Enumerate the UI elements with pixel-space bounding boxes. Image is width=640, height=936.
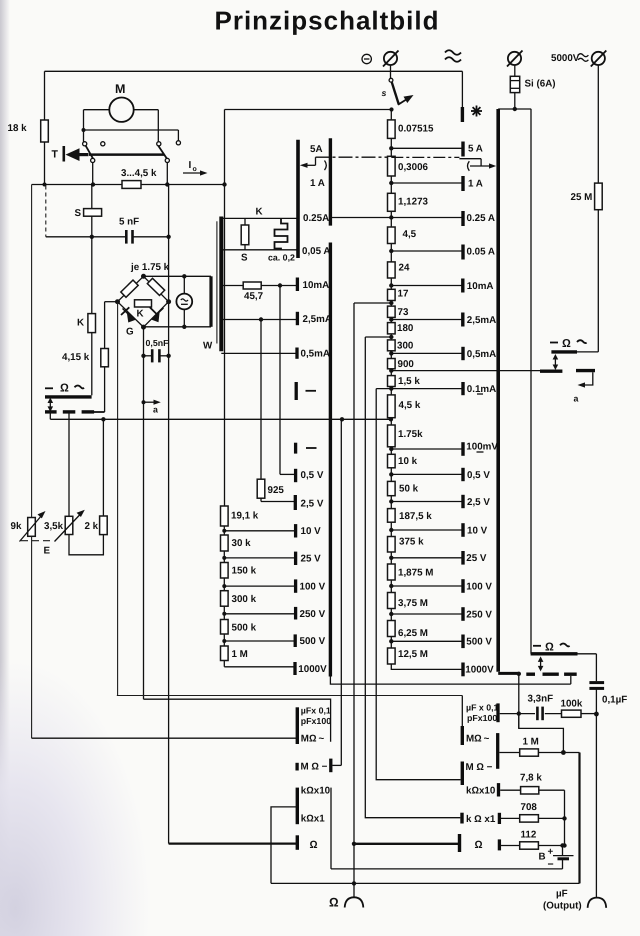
resistor 180 xyxy=(388,323,414,335)
wire jack A to fuse xyxy=(514,65,516,76)
svg-text:10mA: 10mA xyxy=(467,281,494,292)
svg-text:0.05 A: 0.05 A xyxy=(467,246,496,257)
svg-text:B: B xyxy=(539,852,546,863)
svg-text:M Ω −: M Ω − xyxy=(301,762,328,773)
terminal symbol DC (minus in circle) xyxy=(362,54,371,63)
resistor 4,5k xyxy=(388,395,421,418)
svg-text:K: K xyxy=(137,309,144,320)
right block MOhm~/- right bar xyxy=(496,733,499,769)
svg-text:k Ω x1: k Ω x1 xyxy=(466,814,496,825)
star symbol xyxy=(471,106,482,117)
label Io with arrow xyxy=(183,160,208,176)
svg-text:100 V: 100 V xyxy=(466,581,492,592)
svg-text:3...4,5 k: 3...4,5 k xyxy=(121,168,157,179)
wire meter loop bottom xyxy=(144,325,212,329)
left bank contact bars column xyxy=(295,278,297,676)
wire right leg of top bus xyxy=(461,71,463,108)
wiper pair symbol right bank xyxy=(391,157,496,170)
svg-text:kΩx1: kΩx1 xyxy=(301,814,325,825)
svg-text:4,5: 4,5 xyxy=(403,229,417,240)
svg-text:W: W xyxy=(203,341,213,352)
resistor 1,1273 xyxy=(388,193,429,211)
wire MOhm~ feed from left xyxy=(32,737,297,739)
svg-text:3,3nF: 3,3nF xyxy=(528,694,554,705)
left bank right bar (tap bar column) xyxy=(329,138,332,676)
svg-text:30 k: 30 k xyxy=(232,538,252,549)
selector Ohm~ 2 wiper xyxy=(538,656,544,671)
right block Ohm row xyxy=(460,834,500,852)
svg-text:24: 24 xyxy=(399,262,410,273)
wire 5000V jack to 25M xyxy=(597,65,599,183)
node 1A xyxy=(389,181,463,185)
svg-text:9k: 9k xyxy=(11,521,22,532)
svg-text:5 nF: 5 nF xyxy=(119,217,139,228)
node 500V xyxy=(389,639,463,643)
wire top bus y71 xyxy=(45,70,463,72)
svg-text:112: 112 xyxy=(521,830,537,841)
wire contact top rail xyxy=(84,130,179,141)
svg-text:0,5 V: 0,5 V xyxy=(467,470,490,481)
svg-text:0.25 A: 0.25 A xyxy=(467,213,496,224)
wire winding tap K top xyxy=(223,217,298,219)
jack terminal 5000V xyxy=(551,51,606,67)
wire bridge bottom leg down xyxy=(143,356,145,699)
svg-text:4,5 k: 4,5 k xyxy=(399,400,421,411)
svg-text:100mV: 100mV xyxy=(466,442,498,453)
resistor 500k xyxy=(221,612,257,634)
wire 1M loop up xyxy=(519,714,564,753)
underline marks xyxy=(477,394,484,452)
svg-text:10 V: 10 V xyxy=(301,526,322,537)
resistor 50k xyxy=(388,481,419,495)
svg-text:1 M: 1 M xyxy=(232,649,248,660)
right block kOhmx1 row xyxy=(462,813,499,825)
svg-text:5000V: 5000V xyxy=(551,53,580,64)
wire 18k to bus xyxy=(43,142,47,187)
bridge rectifier je 1.75k xyxy=(115,262,171,330)
svg-text:19,1 k: 19,1 k xyxy=(231,511,259,522)
svg-text:S: S xyxy=(75,208,82,219)
svg-text:500 V: 500 V xyxy=(300,636,326,647)
svg-text:ca. 0,2: ca. 0,2 xyxy=(268,253,295,263)
svg-text:E: E xyxy=(44,546,51,557)
svg-text:2,5 V: 2,5 V xyxy=(467,497,490,508)
node 10V xyxy=(389,528,463,532)
svg-text:s: s xyxy=(382,88,387,98)
svg-text:300: 300 xyxy=(397,340,414,351)
svg-text:a: a xyxy=(574,394,579,404)
wire heavy to bottom bus xyxy=(578,753,580,884)
svg-text:25 V: 25 V xyxy=(466,553,487,564)
svg-text:Ω: Ω xyxy=(329,896,339,910)
bridge resistor K (middle) xyxy=(135,300,152,320)
svg-text:25 M: 25 M xyxy=(571,192,593,203)
svg-text:µFx 0,1: µFx 0,1 xyxy=(301,706,331,716)
svg-text:1 A: 1 A xyxy=(468,178,483,189)
wire bridge left to 4.15k corner xyxy=(105,301,118,303)
wire switch lower to chain top xyxy=(225,107,394,111)
svg-text:0.07515: 0.07515 xyxy=(398,124,434,135)
wire kOhm feed xyxy=(271,807,297,884)
motor M xyxy=(109,82,133,122)
switch s xyxy=(382,78,414,105)
svg-text:2,5mA: 2,5mA xyxy=(467,315,496,326)
resistor 1M xyxy=(499,737,579,757)
svg-text:M Ω −: M Ω − xyxy=(466,762,493,773)
wire 2.5mA junction down to 925 xyxy=(260,320,262,480)
left block box outline xyxy=(144,699,331,742)
capacitor 0,1uF xyxy=(589,654,627,714)
left bank labels xyxy=(298,144,332,675)
node 0.25A xyxy=(330,215,463,219)
wire winding tap 0.5mA xyxy=(221,352,297,354)
right block uF left bar xyxy=(461,726,464,745)
left voltage chain: wire from transformer leg xyxy=(223,506,225,667)
meter loop bar xyxy=(209,276,212,327)
left block labels C xyxy=(301,785,331,824)
resistor 4,15k xyxy=(62,302,108,412)
battery B xyxy=(539,846,574,871)
node 180/300 with branch xyxy=(365,335,393,339)
jack terminal (A input) xyxy=(507,51,523,67)
mech link dashed xyxy=(45,186,47,237)
svg-text:Ω: Ω xyxy=(545,641,554,653)
resistor 112 xyxy=(501,830,565,850)
fuse Si (6A) xyxy=(510,76,555,92)
resistor 708 xyxy=(501,802,565,822)
resistor 1,5k xyxy=(388,376,421,388)
resistor 30k xyxy=(221,529,252,551)
svg-text:µF: µF xyxy=(556,889,568,900)
node 17/73 with branch xyxy=(354,301,393,305)
svg-text:7,8 k: 7,8 k xyxy=(520,772,542,783)
resistor 1,875M xyxy=(388,564,434,580)
svg-text:a: a xyxy=(153,405,158,415)
node 5A xyxy=(389,146,463,150)
node 100mV xyxy=(389,447,463,451)
svg-text:17: 17 xyxy=(398,289,409,300)
resistor 19,1k xyxy=(221,506,259,526)
node 10mA xyxy=(389,283,463,287)
wire chain-top leg lower xyxy=(224,217,226,507)
svg-text:0,5nF: 0,5nF xyxy=(146,338,170,348)
svg-text:pFx100: pFx100 xyxy=(301,716,331,726)
right bank tap bars xyxy=(461,142,465,677)
svg-text:375 k: 375 k xyxy=(399,537,424,548)
wire wiper to bus xyxy=(49,412,51,419)
svg-text:Ω: Ω xyxy=(562,338,571,350)
svg-text:4,15 k: 4,15 k xyxy=(62,352,90,363)
svg-text:10 V: 10 V xyxy=(467,525,488,536)
wire selector2 step to bus xyxy=(570,676,572,684)
wire fuse to junction xyxy=(498,93,531,112)
arrow a (right) xyxy=(574,372,593,403)
svg-text:o: o xyxy=(193,166,197,173)
contact bar below right leg xyxy=(461,107,464,122)
right bank stator bar xyxy=(498,109,519,673)
potentiometer 3,5k xyxy=(44,412,85,542)
left block contact bar A xyxy=(296,707,299,744)
svg-text:1000V: 1000V xyxy=(298,664,327,675)
node 1000V bottom corner xyxy=(391,664,463,669)
selector Ohm~ 2 upper bar xyxy=(531,652,597,655)
AC symbol (double tilde) xyxy=(445,50,461,62)
right block kOhmx10 row xyxy=(466,783,499,797)
transformer winding W xyxy=(203,217,221,352)
wire left leg top xyxy=(44,71,46,120)
resistor 3...4,5k xyxy=(121,168,157,188)
svg-text:pFx100: pFx100 xyxy=(467,713,497,723)
svg-text:MΩ ~: MΩ ~ xyxy=(466,734,490,745)
relay S xyxy=(75,185,102,237)
svg-text:18 k: 18 k xyxy=(8,123,28,134)
resistor 6,25M xyxy=(388,621,428,640)
selector Ohm~ 1 lower contacts xyxy=(540,369,595,373)
resistor 100k xyxy=(545,699,599,718)
svg-text:+: + xyxy=(548,847,554,858)
diode G left xyxy=(121,307,136,337)
wire winding tap K bottom / 0.05A feed xyxy=(223,249,298,251)
bus y684 xyxy=(330,677,570,685)
resistor 3,75M xyxy=(388,593,428,610)
wire bus y695 xyxy=(117,695,463,697)
wire Ohm row thick horizontal xyxy=(169,842,460,846)
svg-text:kΩx10: kΩx10 xyxy=(301,785,331,796)
wire left outer down xyxy=(31,185,33,518)
svg-text:3,75 M: 3,75 M xyxy=(398,598,428,609)
resistor 73 xyxy=(388,306,409,318)
node bank to cap leg xyxy=(517,672,521,729)
svg-text:M: M xyxy=(115,82,125,96)
wire Si right leg xyxy=(530,109,532,654)
selector Ohm~ 1 upper bar xyxy=(551,350,598,353)
svg-text:G: G xyxy=(126,327,134,338)
svg-text:1.75k: 1.75k xyxy=(398,429,423,440)
left block MOhm- row xyxy=(297,759,341,773)
selector Ohm~ 2 lower contacts xyxy=(526,673,576,676)
resistor 12,5M xyxy=(388,648,428,664)
resistor ca. 0,2 (meander) xyxy=(268,218,295,262)
svg-text:MΩ ~: MΩ ~ xyxy=(301,733,325,744)
svg-text:K: K xyxy=(77,318,84,329)
svg-text:6,25 M: 6,25 M xyxy=(398,628,428,639)
svg-text:187,5 k: 187,5 k xyxy=(399,511,432,522)
wire chain-top leg xyxy=(222,110,226,217)
svg-text:3,5k: 3,5k xyxy=(44,521,64,532)
wire MOhm- feed from 0.1mA node xyxy=(376,389,460,780)
mech dashes E xyxy=(21,541,52,557)
capacitor 0,5nF xyxy=(141,327,171,362)
wire motor left lead xyxy=(82,110,110,142)
wire motor right lead xyxy=(134,110,159,142)
svg-text:1 A: 1 A xyxy=(310,178,325,189)
resistor 300k xyxy=(221,584,257,606)
wire right-block feed leg xyxy=(461,696,463,729)
relay blade xyxy=(86,146,167,159)
resistor 24 xyxy=(388,262,410,278)
svg-text:Si (6A): Si (6A) xyxy=(525,79,556,90)
resistor 7,8k xyxy=(500,772,564,794)
wire Ohm output leg xyxy=(353,303,355,897)
svg-text:(Output): (Output) xyxy=(543,901,582,912)
node 250V xyxy=(389,612,463,616)
resistor 45,7 xyxy=(223,282,298,302)
wire 7.8k corner down xyxy=(562,790,566,848)
resistor 1M xyxy=(221,639,248,661)
transformer core line xyxy=(216,221,218,343)
svg-text:1000V: 1000V xyxy=(465,664,494,675)
left block Ohm row bar xyxy=(297,835,317,851)
selector Ohm~ left: upper contact bar xyxy=(45,395,92,398)
svg-text:250 V: 250 V xyxy=(466,609,492,620)
wire winding tap 2.5mA xyxy=(223,317,298,321)
svg-text:1,5 k: 1,5 k xyxy=(398,376,420,387)
blank contact dashes xyxy=(306,391,317,448)
node 900/1.5k long branch to selector xyxy=(389,368,562,372)
resistor 300 xyxy=(388,340,414,352)
center chain spine xyxy=(390,110,392,665)
svg-text:K: K xyxy=(256,207,263,218)
right block MOhm- row xyxy=(462,762,492,786)
selector Ohm~ 2 label xyxy=(533,641,570,653)
svg-text:2,5 V: 2,5 V xyxy=(301,498,324,509)
svg-text:Ω: Ω xyxy=(475,839,483,851)
resistor 0.07515 xyxy=(388,120,434,138)
wire contacts down to bus xyxy=(91,163,170,187)
svg-text:Ω: Ω xyxy=(310,839,318,851)
resistor 925 xyxy=(257,479,295,501)
resistor K (vertical) xyxy=(77,237,96,395)
right block uF right bar xyxy=(496,703,499,722)
svg-text:180: 180 xyxy=(397,323,414,334)
node 100V xyxy=(389,584,463,588)
svg-text:2,5mA: 2,5mA xyxy=(303,314,332,325)
svg-text:10 k: 10 k xyxy=(398,456,418,467)
resistor 10k xyxy=(388,454,418,468)
svg-text:0,5mA: 0,5mA xyxy=(467,349,496,360)
resistor 25M xyxy=(571,183,603,210)
left block labels A xyxy=(301,706,331,727)
svg-text:5 A: 5 A xyxy=(468,144,483,155)
svg-text:1,1273: 1,1273 xyxy=(398,197,429,208)
output terminal Ohm xyxy=(329,896,363,910)
svg-text:900: 900 xyxy=(398,359,415,370)
relay contact circles xyxy=(83,141,181,163)
svg-text:500 k: 500 k xyxy=(232,622,257,633)
svg-text:100 V: 100 V xyxy=(300,581,326,592)
svg-text:500 V: 500 V xyxy=(466,636,492,647)
node 0.05A xyxy=(389,249,463,253)
selector Ohm~ 1 wiper xyxy=(553,354,559,370)
potentiometer 9k xyxy=(11,511,46,542)
right bank labels xyxy=(465,144,498,676)
wire MOhm- up leg xyxy=(340,419,342,765)
resistor 18k xyxy=(8,120,49,142)
meter (galvanometer) xyxy=(176,276,192,327)
arrow a (left) xyxy=(142,400,161,415)
node 2.5mA xyxy=(389,317,463,321)
resistor S (K network) xyxy=(241,218,249,263)
svg-text:kΩx10: kΩx10 xyxy=(466,786,496,797)
svg-text:73: 73 xyxy=(398,307,409,318)
svg-text:50 k: 50 k xyxy=(399,484,419,495)
wire 3.5k bottom loop xyxy=(69,535,103,555)
node 0.5mA xyxy=(389,351,463,355)
svg-text:2 k: 2 k xyxy=(85,521,99,532)
jack terminal (main input) xyxy=(383,51,399,67)
wire 9k line lower xyxy=(31,536,33,738)
left chain tap wires xyxy=(224,531,295,667)
svg-text:250 V: 250 V xyxy=(300,609,326,620)
svg-text:Ω: Ω xyxy=(60,383,69,395)
node 0.5V xyxy=(389,472,463,476)
wire kOhm bus bottom xyxy=(271,881,580,885)
svg-text:10mA: 10mA xyxy=(303,280,330,291)
wire bottom edge to battery xyxy=(331,868,563,870)
wire meter loop top xyxy=(144,274,212,278)
svg-text:−: − xyxy=(548,859,554,871)
resistor 150k xyxy=(221,556,257,578)
left bank stator bar upper xyxy=(296,140,300,258)
svg-text:0,05 A: 0,05 A xyxy=(302,246,331,257)
wiper pair symbol left bank xyxy=(300,157,391,170)
wire right 5nF leg down xyxy=(168,185,170,844)
right block uF/pF row labels xyxy=(466,702,499,723)
svg-text:0.25A: 0.25A xyxy=(303,213,329,224)
wire 10mA junction down to 0.5V xyxy=(280,286,296,475)
svg-text:0,3006: 0,3006 xyxy=(398,162,429,173)
capacitor 5nF xyxy=(46,217,171,244)
thermal trip T xyxy=(52,146,89,162)
svg-text:je 1.75 k: je 1.75 k xyxy=(130,262,170,273)
wire 0.1uF junction down to output xyxy=(595,714,597,897)
wire thin from bridge minus down xyxy=(117,302,119,696)
wire kOhmx1 feed from 180/300 node xyxy=(365,337,460,818)
svg-text:1,875 M: 1,875 M xyxy=(398,568,433,579)
svg-text:0,5mA: 0,5mA xyxy=(301,349,330,360)
svg-text:1 M: 1 M xyxy=(523,737,539,748)
wire bus y184 xyxy=(32,184,225,186)
selector Ohm~ left: lower contact bar dashed xyxy=(45,410,94,413)
selector Ohm~ left: label xyxy=(45,383,84,395)
svg-text:100k: 100k xyxy=(561,699,583,710)
resistor 375k xyxy=(388,537,425,553)
selector wiper double arrow xyxy=(48,398,54,412)
svg-text:Prinzipschaltbild: Prinzipschaltbild xyxy=(214,6,439,36)
diode right xyxy=(150,307,164,322)
output terminal uF xyxy=(543,889,606,912)
svg-text:708: 708 xyxy=(521,802,538,813)
resistor 2k xyxy=(85,419,108,534)
left block right contact rail xyxy=(330,788,332,869)
node 2.5V xyxy=(389,499,463,503)
svg-text:12,5 M: 12,5 M xyxy=(398,649,428,660)
capacitor 3,3nF xyxy=(500,694,553,721)
wire jack stem xyxy=(390,65,392,78)
node 0.1mA xyxy=(376,386,463,390)
svg-text:0,1µF: 0,1µF xyxy=(602,695,627,706)
resistor 17 xyxy=(388,289,409,301)
selector Ohm~ 1 label xyxy=(550,338,587,350)
svg-text:T: T xyxy=(52,149,59,161)
svg-text:S: S xyxy=(241,253,248,264)
resistor 900 xyxy=(388,359,415,370)
svg-text:µF x 0,1: µF x 0,1 xyxy=(466,702,499,712)
resistor 187,5k xyxy=(388,509,433,523)
svg-text:925: 925 xyxy=(268,485,285,496)
bus y419 xyxy=(50,417,393,421)
svg-text:I: I xyxy=(189,160,192,171)
